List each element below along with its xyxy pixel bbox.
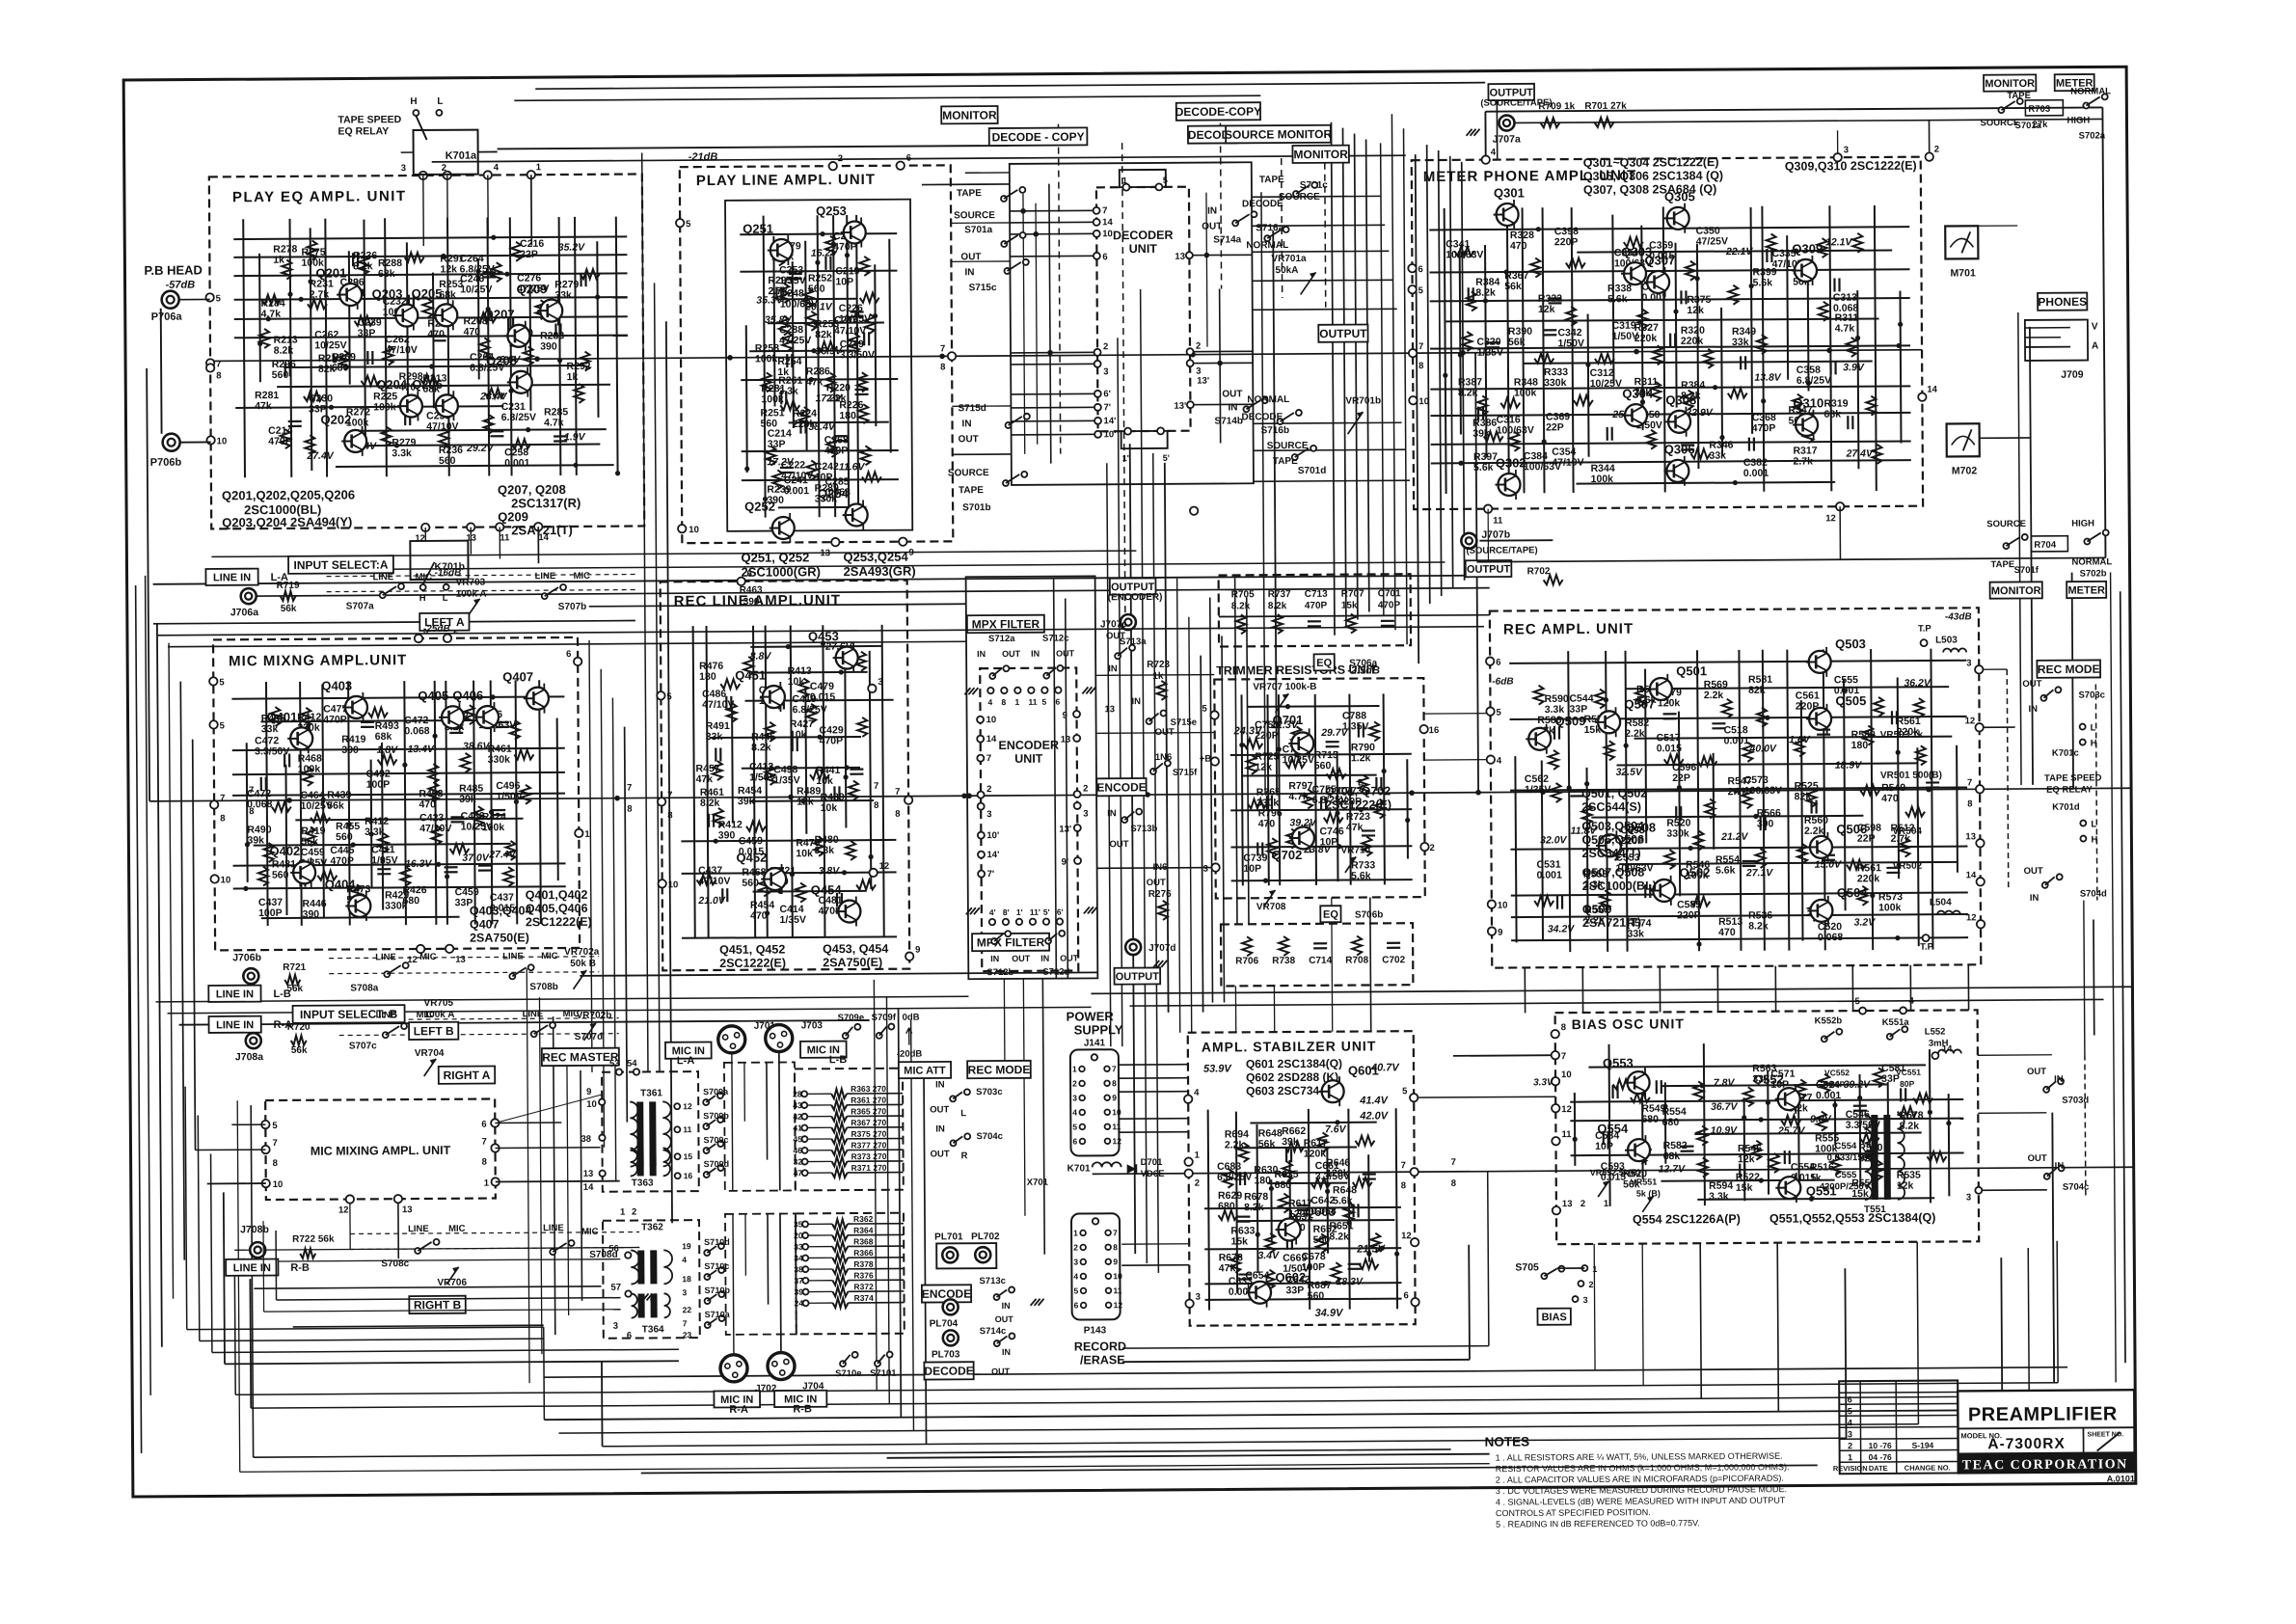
svg-text:21.5V: 21.5V <box>1356 1243 1386 1255</box>
svg-text:2: 2 <box>1072 1078 1077 1088</box>
svg-text:Q304: Q304 <box>1622 387 1654 401</box>
svg-text:5: 5 <box>1402 1086 1408 1096</box>
svg-text:T.P: T.P <box>1918 624 1931 635</box>
svg-text:47k: 47k <box>255 400 272 412</box>
svg-text:Q401: Q401 <box>266 710 297 724</box>
svg-text:S703c: S703c <box>976 1087 1003 1097</box>
svg-text:R-B: R-B <box>290 1262 310 1274</box>
svg-text:12k: 12k <box>797 796 814 807</box>
svg-text:34.2V: 34.2V <box>1548 923 1576 934</box>
svg-text:MIC MIXING AMPL. UNIT: MIC MIXING AMPL. UNIT <box>311 1144 451 1158</box>
svg-text:K701d: K701d <box>2052 802 2080 813</box>
svg-text:Q206: Q206 <box>412 377 443 392</box>
svg-text:PREAMPLIFIER: PREAMPLIFIER <box>1968 1403 2118 1425</box>
svg-text:100/63V: 100/63V <box>1497 424 1534 436</box>
svg-text:7: 7 <box>940 343 945 354</box>
svg-text:S701f: S701f <box>2014 565 2039 576</box>
svg-text:45: 45 <box>793 1134 802 1144</box>
svg-text:IN: IN <box>964 267 974 278</box>
svg-text:9: 9 <box>915 945 920 956</box>
svg-text:18.3V: 18.3V <box>1337 1276 1364 1287</box>
svg-text:11: 11 <box>1493 516 1503 527</box>
svg-text:Q305, Q306 2SC1384 (Q): Q305, Q306 2SC1384 (Q) <box>1583 169 1723 183</box>
svg-text:34.9V: 34.9V <box>1315 1308 1344 1319</box>
svg-text:13': 13' <box>1059 825 1071 835</box>
svg-text:47: 47 <box>794 1168 803 1177</box>
svg-text:470P: 470P <box>820 735 844 746</box>
svg-text:6.8/25V: 6.8/25V <box>1796 375 1831 387</box>
svg-text:7: 7 <box>249 785 254 796</box>
svg-text:Q502: Q502 <box>1680 865 1711 880</box>
svg-text:8.2k: 8.2k <box>700 798 720 809</box>
svg-text:180: 180 <box>1851 740 1869 751</box>
svg-text:390: 390 <box>1757 818 1774 829</box>
svg-text:M702: M702 <box>1952 465 1978 476</box>
svg-text:MONITOR: MONITOR <box>942 108 997 122</box>
svg-text:13': 13' <box>1197 376 1209 387</box>
svg-text:1k: 1k <box>567 371 579 383</box>
svg-text:H: H <box>419 593 426 604</box>
svg-text:Q404: Q404 <box>325 877 357 891</box>
svg-text:0.001: 0.001 <box>1724 735 1750 746</box>
svg-text:REC MODE: REC MODE <box>2038 663 2100 676</box>
svg-text:Q603: Q603 <box>1305 1204 1336 1219</box>
svg-text:38: 38 <box>581 1134 591 1145</box>
svg-text:Q308: Q308 <box>1665 392 1696 407</box>
svg-text:TEAC CORPORATION: TEAC CORPORATION <box>1962 1457 2128 1473</box>
svg-text:LINE IN: LINE IN <box>233 1262 271 1274</box>
svg-text:29.7V: 29.7V <box>1320 727 1349 739</box>
svg-text:Q501, Q502: Q501, Q502 <box>1581 787 1647 800</box>
svg-text:S710c: S710c <box>704 1261 729 1271</box>
svg-text:J708a: J708a <box>235 1051 263 1063</box>
svg-text:VR702a: VR702a <box>564 947 600 958</box>
svg-text:T.P: T.P <box>1920 942 1933 953</box>
svg-text:S7101: S7101 <box>870 1368 897 1379</box>
svg-text:22P: 22P <box>1546 421 1564 433</box>
svg-text:L-A: L-A <box>677 1055 694 1067</box>
svg-text:IN: IN <box>977 649 986 659</box>
svg-text:5 . READING IN dB REFERENCED T: 5 . READING IN dB REFERENCED TO 0dB=0.77… <box>1496 1518 1700 1529</box>
svg-text:33P: 33P <box>1285 1285 1304 1296</box>
svg-text:560: 560 <box>272 369 289 381</box>
svg-text:Q309,Q310 2SC1222(E): Q309,Q310 2SC1222(E) <box>1785 159 1917 174</box>
svg-text:7: 7 <box>1102 205 1107 216</box>
svg-text:470P: 470P <box>330 855 354 867</box>
svg-text:1/35V: 1/35V <box>780 914 807 926</box>
svg-text:4.7k: 4.7k <box>544 417 564 428</box>
svg-text:4: 4 <box>987 697 992 707</box>
svg-text:VC551: VC551 <box>1896 1068 1921 1077</box>
svg-text:Q452: Q452 <box>736 851 767 865</box>
svg-text:180: 180 <box>699 671 716 683</box>
svg-text:S715f: S715f <box>1173 768 1198 778</box>
svg-text:Q403: Q403 <box>321 678 352 692</box>
svg-text:S708a: S708a <box>350 983 378 993</box>
svg-text:5: 5 <box>1163 176 1168 185</box>
svg-text:TAPE: TAPE <box>959 485 984 496</box>
svg-text:7: 7 <box>895 787 900 798</box>
svg-text:S707a: S707a <box>346 601 374 611</box>
svg-text:T362: T362 <box>641 1222 663 1232</box>
svg-text:Q506: Q506 <box>1836 822 1867 836</box>
svg-text:Q403,Q404: Q403,Q404 <box>470 904 532 917</box>
svg-text:16: 16 <box>1429 725 1440 736</box>
svg-text:1.6V: 1.6V <box>1789 734 1811 745</box>
svg-text:3.8V: 3.8V <box>819 865 841 877</box>
svg-text:8.2k: 8.2k <box>1458 387 1478 398</box>
svg-text:39k: 39k <box>1282 1136 1299 1148</box>
svg-text:L: L <box>2091 819 2096 829</box>
svg-text:9: 9 <box>1113 1257 1118 1266</box>
svg-text:5: 5 <box>1073 1286 1078 1295</box>
svg-text:Q507,Q508: Q507,Q508 <box>1582 866 1645 880</box>
svg-text:A-7300RX: A-7300RX <box>1987 1436 2065 1453</box>
svg-text:7: 7 <box>1561 1051 1566 1062</box>
svg-text:VR504: VR504 <box>1892 826 1922 837</box>
svg-text:6: 6 <box>481 1120 486 1130</box>
svg-text:2SC1222(E): 2SC1222(E) <box>719 956 786 969</box>
svg-text:3: 3 <box>1848 1429 1852 1439</box>
svg-text:14: 14 <box>986 734 997 744</box>
svg-text:20: 20 <box>794 1231 803 1240</box>
svg-text:40.0V: 40.0V <box>1748 743 1777 754</box>
svg-text:S702a: S702a <box>2079 130 2106 141</box>
svg-text:PL703: PL703 <box>932 1349 960 1360</box>
svg-text:680: 680 <box>1218 1201 1235 1212</box>
svg-text:S715d: S715d <box>958 403 986 414</box>
svg-text:28: 28 <box>793 1089 802 1098</box>
svg-text:3 . DC VOLTAGES WERE MEASURED: 3 . DC VOLTAGES WERE MEASURED DURING REC… <box>1496 1484 1787 1496</box>
svg-text:S710d: S710d <box>704 1237 730 1247</box>
svg-text:37.0V: 37.0V <box>462 853 490 864</box>
svg-text:R721: R721 <box>283 962 306 973</box>
svg-text:2: 2 <box>442 163 446 174</box>
svg-text:IN: IN <box>1002 1347 1011 1357</box>
svg-text:29.2V: 29.2V <box>466 443 495 454</box>
svg-text:REVISION: REVISION <box>1833 1464 1868 1473</box>
svg-text:VR705: VR705 <box>423 998 453 1009</box>
svg-text:220k: 220k <box>1681 336 1704 347</box>
svg-text:LINE: LINE <box>376 1010 397 1020</box>
svg-text:8.2k: 8.2k <box>751 742 771 753</box>
svg-text:470: 470 <box>1718 927 1736 938</box>
svg-text:56k: 56k <box>1504 281 1522 292</box>
svg-text:Q553: Q553 <box>1603 1056 1634 1070</box>
svg-text:OUT: OUT <box>959 434 979 445</box>
svg-text:A.0101: A.0101 <box>2107 1474 2135 1483</box>
svg-text:S713a: S713a <box>1120 636 1147 647</box>
svg-text:IN: IN <box>1002 1301 1011 1311</box>
svg-text:4: 4 <box>1848 1418 1852 1427</box>
svg-text:56k: 56k <box>286 984 303 994</box>
svg-text:3: 3 <box>1083 808 1088 819</box>
svg-text:IN: IN <box>2028 704 2038 715</box>
svg-text:7: 7 <box>216 359 221 369</box>
svg-text:L503: L503 <box>1935 635 1958 645</box>
svg-text:SOURCE: SOURCE <box>954 210 995 221</box>
svg-text:180: 180 <box>1254 1175 1271 1186</box>
svg-text:5: 5 <box>1041 697 1046 707</box>
svg-text:12: 12 <box>879 861 890 872</box>
svg-text:2SA493(GR): 2SA493(GR) <box>844 564 916 579</box>
svg-text:11: 11 <box>1028 697 1037 707</box>
svg-text:100k A: 100k A <box>456 589 487 600</box>
svg-text:22: 22 <box>683 1305 692 1314</box>
svg-text:S706b: S706b <box>1355 909 1384 920</box>
svg-text:3.9V: 3.9V <box>1843 362 1865 373</box>
svg-text:X701: X701 <box>1027 1177 1049 1188</box>
svg-text:Q201: Q201 <box>315 265 346 280</box>
svg-text:120k: 120k <box>1304 1148 1327 1159</box>
svg-text:5k (B): 5k (B) <box>1636 1188 1661 1198</box>
svg-text:2SA750(E): 2SA750(E) <box>823 956 882 969</box>
svg-text:680: 680 <box>1641 1114 1659 1125</box>
svg-text:LINE: LINE <box>375 952 396 962</box>
svg-text:OUT: OUT <box>2027 1067 2046 1077</box>
svg-text:390: 390 <box>743 597 760 608</box>
svg-text:VD6E: VD6E <box>1141 1169 1165 1179</box>
svg-text:8: 8 <box>1451 1178 1456 1189</box>
svg-text:470P: 470P <box>268 436 292 447</box>
svg-text:2: 2 <box>1083 783 1088 794</box>
svg-text:33k: 33k <box>1709 450 1726 462</box>
svg-text:11: 11 <box>1561 1129 1572 1140</box>
svg-text:5: 5 <box>272 1121 278 1131</box>
svg-text:1: 1 <box>1122 176 1127 185</box>
svg-text:22.1V: 22.1V <box>1725 246 1754 257</box>
svg-text:3.3k: 3.3k <box>1709 1191 1729 1203</box>
svg-text:8: 8 <box>895 809 900 820</box>
svg-text:12k: 12k <box>1687 305 1704 316</box>
svg-text:Q209: Q209 <box>517 282 548 296</box>
svg-text:14: 14 <box>1102 217 1113 228</box>
svg-text:3.3/50V: 3.3/50V <box>255 745 289 757</box>
svg-text:OUT: OUT <box>1002 649 1021 659</box>
svg-text:3.3k: 3.3k <box>778 386 798 397</box>
svg-text:12k: 12k <box>440 263 457 275</box>
svg-text:6: 6 <box>1404 1290 1409 1301</box>
svg-text:R720: R720 <box>287 1022 311 1033</box>
svg-text:SUPPLY: SUPPLY <box>1074 1022 1123 1037</box>
svg-text:7: 7 <box>667 790 672 800</box>
svg-text:0.068: 0.068 <box>404 725 430 737</box>
svg-text:-20dB: -20dB <box>897 1049 923 1060</box>
svg-text:39k: 39k <box>247 834 264 846</box>
svg-text:4': 4' <box>989 907 996 917</box>
svg-text:-21dB: -21dB <box>689 151 718 163</box>
svg-text:10k: 10k <box>821 802 838 814</box>
svg-text:K701: K701 <box>1067 1163 1091 1174</box>
svg-text:35.2V: 35.2V <box>558 242 586 254</box>
svg-text:VR503 1k: VR503 1k <box>1880 730 1924 741</box>
svg-text:47k: 47k <box>1219 1262 1236 1274</box>
svg-text:8': 8' <box>1003 907 1010 917</box>
svg-text:1: 1 <box>1195 1150 1201 1161</box>
svg-text:Q554: Q554 <box>1597 1122 1629 1136</box>
svg-text:M701: M701 <box>1950 267 1976 279</box>
svg-text:0.001: 0.001 <box>1537 870 1563 881</box>
svg-text:2: 2 <box>1580 1199 1585 1209</box>
svg-text:8: 8 <box>1967 798 1972 809</box>
svg-text:UNIT: UNIT <box>1014 752 1043 766</box>
svg-text:T363: T363 <box>632 1177 654 1188</box>
svg-text:S712a: S712a <box>988 634 1015 644</box>
svg-text:LINE: LINE <box>502 951 524 961</box>
svg-text:S709a: S709a <box>703 1087 729 1096</box>
svg-text:Q251, Q252: Q251, Q252 <box>741 550 809 564</box>
svg-text:2SC644(S): 2SC644(S) <box>1581 800 1641 814</box>
svg-text:Q504: Q504 <box>1837 885 1869 900</box>
svg-text:7.6V: 7.6V <box>1325 1123 1347 1135</box>
svg-text:Q302: Q302 <box>1496 455 1526 470</box>
svg-text:REC MASTER: REC MASTER <box>542 1050 619 1065</box>
svg-text:560: 560 <box>1314 760 1332 771</box>
svg-text:4: 4 <box>1194 1088 1200 1098</box>
svg-text:MIC: MIC <box>541 951 558 961</box>
svg-text:S703c: S703c <box>2078 690 2105 700</box>
svg-text:R703: R703 <box>2028 104 2050 115</box>
svg-text:470: 470 <box>427 329 445 340</box>
svg-text:3.3/50V: 3.3/50V <box>840 349 875 361</box>
svg-text:6: 6 <box>566 649 571 660</box>
svg-text:TAPE SPEED: TAPE SPEED <box>338 114 401 125</box>
svg-text:DECODE - COPY: DECODE - COPY <box>992 130 1085 145</box>
svg-text:39: 39 <box>794 1287 803 1297</box>
svg-text:R365 270: R365 270 <box>851 1106 886 1116</box>
svg-text:S705: S705 <box>1515 1261 1539 1273</box>
svg-text:470P: 470P <box>1752 422 1776 434</box>
svg-text:10': 10' <box>986 830 999 841</box>
svg-text:15k: 15k <box>1230 1235 1248 1247</box>
svg-text:390: 390 <box>540 340 557 352</box>
svg-text:MIC: MIC <box>574 571 591 582</box>
svg-text:3: 3 <box>1966 658 1971 668</box>
svg-text:IN: IN <box>2055 1161 2065 1172</box>
svg-text:VR552 5k(B): VR552 5k(B) <box>1590 1168 1641 1177</box>
svg-text:LINE IN: LINE IN <box>216 1019 254 1031</box>
svg-text:7: 7 <box>874 781 878 792</box>
svg-text:S709b: S709b <box>703 1111 729 1121</box>
svg-text:Q505: Q505 <box>1835 693 1866 708</box>
svg-text:100P: 100P <box>258 907 283 919</box>
svg-text:R701 27k: R701 27k <box>1584 101 1627 112</box>
svg-text:13.4V: 13.4V <box>408 744 436 755</box>
svg-text:Q453, Q454: Q453, Q454 <box>823 942 888 956</box>
svg-text:R361 270: R361 270 <box>851 1096 886 1105</box>
svg-text:2 . ALL CAPACITOR VALUES ARE I: 2 . ALL CAPACITOR VALUES ARE IN MICROFAR… <box>1496 1474 1784 1485</box>
svg-text:R-B: R-B <box>793 1403 812 1415</box>
svg-text:R737: R737 <box>1268 589 1291 600</box>
svg-text:7: 7 <box>1112 1064 1117 1073</box>
svg-text:S706a: S706a <box>1349 658 1377 668</box>
svg-text:MONITOR: MONITOR <box>1293 148 1348 161</box>
svg-text:Q209: Q209 <box>498 509 528 524</box>
svg-text:390: 390 <box>718 829 736 841</box>
svg-text:9: 9 <box>586 1087 591 1097</box>
svg-text:4.7k: 4.7k <box>261 309 282 320</box>
svg-text:5': 5' <box>1163 453 1170 463</box>
svg-text:680: 680 <box>1662 1117 1680 1128</box>
svg-text:0.068: 0.068 <box>1818 932 1844 943</box>
svg-text:2: 2 <box>1934 145 1939 155</box>
svg-text:PLAY EQ AMPL. UNIT: PLAY EQ AMPL. UNIT <box>232 188 407 205</box>
svg-text:MIC: MIC <box>417 1010 434 1020</box>
svg-text:27.1V: 27.1V <box>1745 867 1774 879</box>
svg-text:VR708: VR708 <box>1256 902 1286 912</box>
svg-text:3: 3 <box>1203 864 1208 875</box>
svg-text:C701: C701 <box>1378 588 1401 599</box>
svg-text:14: 14 <box>538 532 549 543</box>
svg-text:J707b: J707b <box>1481 529 1510 541</box>
svg-text:2SA750(E): 2SA750(E) <box>470 931 529 944</box>
svg-text:S708c: S708c <box>381 1259 409 1269</box>
svg-text:68k: 68k <box>375 731 392 743</box>
svg-text:LINE: LINE <box>535 571 556 582</box>
svg-text:VR701b: VR701b <box>1345 395 1381 406</box>
svg-text:1/35V: 1/35V <box>1525 784 1552 796</box>
svg-text:R707: R707 <box>1341 589 1364 600</box>
svg-text:1: 1 <box>1014 697 1019 707</box>
svg-text:S701a: S701a <box>964 225 992 235</box>
svg-text:5.6k: 5.6k <box>1473 462 1494 474</box>
svg-text:RIGHT A: RIGHT A <box>444 1069 491 1082</box>
svg-text:D701: D701 <box>1141 1157 1163 1168</box>
svg-text:47/10V: 47/10V <box>834 325 866 337</box>
svg-text:9.8V: 9.8V <box>1810 1114 1832 1125</box>
svg-text:1: 1 <box>1073 1228 1078 1237</box>
svg-text:47k: 47k <box>1346 822 1364 833</box>
svg-text:4: 4 <box>494 162 500 173</box>
svg-text:Q401,Q402: Q401,Q402 <box>526 888 588 902</box>
svg-text:47/25V: 47/25V <box>779 335 811 346</box>
svg-text:R367 270: R367 270 <box>851 1118 886 1127</box>
svg-text:S709e: S709e <box>838 1013 865 1023</box>
svg-text:C714: C714 <box>1309 956 1332 966</box>
svg-text:330k: 330k <box>1544 377 1567 389</box>
svg-text:8: 8 <box>249 806 254 817</box>
svg-text:6: 6 <box>1072 1136 1077 1146</box>
svg-text:27.4V: 27.4V <box>306 450 335 462</box>
svg-text:S707b: S707b <box>558 602 587 612</box>
svg-text:Q554 2SC1226A(P): Q554 2SC1226A(P) <box>1633 1212 1741 1227</box>
svg-text:OUT: OUT <box>1202 221 1222 231</box>
svg-text:REC MODE: REC MODE <box>968 1063 1031 1076</box>
svg-text:Q301: Q301 <box>1494 185 1525 200</box>
svg-text:S709f: S709f <box>872 1013 897 1023</box>
svg-text:10/25V: 10/25V <box>460 284 492 295</box>
svg-text:2.2k: 2.2k <box>1225 1139 1245 1150</box>
svg-text:ENCODER: ENCODER <box>998 739 1059 752</box>
svg-text:5.6k: 5.6k <box>1607 293 1628 305</box>
svg-text:J706b: J706b <box>232 952 261 963</box>
svg-text:10k: 10k <box>796 848 813 859</box>
svg-text:S708b: S708b <box>529 982 558 992</box>
svg-text:8.2k: 8.2k <box>1329 1231 1349 1242</box>
svg-text:15: 15 <box>684 1151 693 1161</box>
svg-text:10/25V: 10/25V <box>461 821 493 832</box>
svg-text:1/50V: 1/50V <box>496 791 523 802</box>
svg-text:DECODER: DECODER <box>1113 229 1174 242</box>
svg-text:P.B HEAD: P.B HEAD <box>144 262 203 277</box>
svg-text:10: 10 <box>1561 1069 1572 1080</box>
svg-text:K701c: K701c <box>2052 748 2079 759</box>
svg-text:J707d: J707d <box>1148 943 1175 954</box>
svg-text:32: 32 <box>794 1157 803 1167</box>
svg-text:UNIT: UNIT <box>1129 242 1158 256</box>
svg-text:5: 5 <box>1072 1122 1077 1131</box>
svg-text:VR502: VR502 <box>1893 861 1923 872</box>
